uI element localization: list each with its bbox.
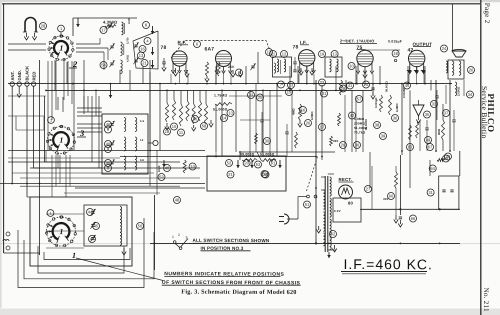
svg-text:47: 47 xyxy=(90,236,95,241)
svg-text:23: 23 xyxy=(249,92,254,97)
svg-text:75: 75 xyxy=(356,45,362,51)
svg-text:R.F.: R.F. xyxy=(177,40,186,45)
svg-text:0.015µF: 0.015µF xyxy=(374,97,378,108)
svg-text:30: 30 xyxy=(355,142,360,147)
svg-text:12: 12 xyxy=(282,51,287,56)
svg-text:1: 1 xyxy=(59,44,63,53)
svg-text:OUTPUT: OUTPUT xyxy=(412,42,432,47)
svg-text:26: 26 xyxy=(306,120,311,125)
svg-text:Fig. 3. Schematic Diagram of: Fig. 3. Schematic Diagram of Model 620 xyxy=(181,289,296,297)
svg-text:57: 57 xyxy=(357,96,362,101)
svg-text:80: 80 xyxy=(348,201,354,206)
svg-text:1: 1 xyxy=(72,251,76,260)
svg-text:4,50Ω: 4,50Ω xyxy=(127,55,130,62)
svg-text:62: 62 xyxy=(331,231,336,236)
svg-text:20: 20 xyxy=(364,82,369,87)
svg-text:51,000Ω: 51,000Ω xyxy=(213,108,228,112)
svg-text:I.F.=460 KC.: I.F.=460 KC. xyxy=(343,256,432,272)
svg-text:BLACK: BLACK xyxy=(25,66,30,81)
svg-text:RECT.: RECT. xyxy=(338,177,352,182)
svg-text:59: 59 xyxy=(262,171,267,176)
svg-text:56: 56 xyxy=(193,116,198,121)
svg-text:21: 21 xyxy=(142,60,147,65)
svg-text:38: 38 xyxy=(375,122,380,127)
svg-text:1: 1 xyxy=(49,211,51,215)
svg-text:ANT.: ANT. xyxy=(10,71,15,80)
svg-text:64: 64 xyxy=(430,166,435,171)
svg-text:300: 300 xyxy=(383,197,389,201)
svg-text:78: 78 xyxy=(160,45,166,51)
svg-text:36: 36 xyxy=(393,115,398,120)
svg-text:1: 1 xyxy=(60,27,62,31)
svg-text:250: 250 xyxy=(228,65,234,69)
svg-text:25: 25 xyxy=(258,95,263,100)
svg-text:30: 30 xyxy=(265,138,270,143)
svg-text:I.F.: I.F. xyxy=(300,40,307,45)
svg-text:13: 13 xyxy=(289,82,294,87)
svg-text:6A7: 6A7 xyxy=(204,47,214,53)
svg-text:24: 24 xyxy=(442,46,447,51)
svg-text:53: 53 xyxy=(159,174,164,179)
svg-text:13: 13 xyxy=(228,110,233,115)
svg-text:66: 66 xyxy=(411,216,416,221)
svg-text:46: 46 xyxy=(106,141,111,146)
svg-text:2MΩ: 2MΩ xyxy=(437,128,441,135)
svg-text:1/4MΩ: 1/4MΩ xyxy=(395,103,399,112)
svg-text:4,300Ω: 4,300Ω xyxy=(103,20,118,25)
svg-text:58: 58 xyxy=(202,123,207,128)
svg-text:49: 49 xyxy=(426,137,431,142)
svg-text:45: 45 xyxy=(94,223,99,228)
svg-text:26: 26 xyxy=(469,67,474,72)
svg-text:31: 31 xyxy=(322,91,327,96)
svg-text:6.5: 6.5 xyxy=(140,120,145,123)
svg-text:34: 34 xyxy=(468,92,473,97)
svg-text:78: 78 xyxy=(292,45,298,51)
svg-text:1: 1 xyxy=(172,235,174,239)
svg-text:No. 211: No. 211 xyxy=(482,288,490,312)
svg-text:63: 63 xyxy=(408,144,413,149)
svg-text:IN POSITION NO.3: IN POSITION NO.3 xyxy=(200,246,243,251)
svg-text:46: 46 xyxy=(106,122,111,127)
svg-text:41: 41 xyxy=(348,83,353,88)
svg-text:52: 52 xyxy=(227,160,232,165)
svg-text:10: 10 xyxy=(172,124,177,129)
svg-text:2: 2 xyxy=(72,59,78,69)
svg-text:44: 44 xyxy=(88,209,93,214)
svg-text:35: 35 xyxy=(425,112,430,117)
svg-text:10µF: 10µF xyxy=(157,165,161,172)
svg-text:16: 16 xyxy=(140,46,145,51)
svg-text:28: 28 xyxy=(341,86,346,91)
svg-text:18: 18 xyxy=(165,129,170,134)
svg-text:RED: RED xyxy=(31,72,36,81)
svg-text:2,000Ω: 2,000Ω xyxy=(457,86,461,96)
svg-text:10: 10 xyxy=(349,63,354,68)
svg-text:50: 50 xyxy=(138,223,143,228)
svg-text:65: 65 xyxy=(444,156,449,161)
svg-text:2: 2 xyxy=(178,233,180,237)
svg-text:Page 2: Page 2 xyxy=(483,3,491,24)
svg-text:16: 16 xyxy=(140,139,144,142)
svg-text:46: 46 xyxy=(106,160,111,165)
svg-text:14: 14 xyxy=(222,115,227,120)
svg-text:Service Bulletin: Service Bulletin xyxy=(480,86,489,138)
svg-text:22: 22 xyxy=(320,80,325,85)
svg-text:28: 28 xyxy=(41,23,46,28)
svg-text:19: 19 xyxy=(320,51,325,56)
svg-text:17: 17 xyxy=(101,27,106,32)
svg-text:39: 39 xyxy=(381,133,386,138)
svg-text:3: 3 xyxy=(79,128,85,138)
svg-text:16: 16 xyxy=(301,107,306,112)
svg-text:0.015μF: 0.015μF xyxy=(388,40,402,44)
svg-text:990: 990 xyxy=(333,139,339,143)
svg-text:1: 1 xyxy=(59,136,63,145)
svg-text:1: 1 xyxy=(59,227,63,236)
svg-text:GND.: GND. xyxy=(17,70,22,80)
svg-text:49: 49 xyxy=(165,165,170,170)
svg-text:ALL SWITCH SECTIONS SHOWN: ALL SWITCH SECTIONS SHOWN xyxy=(192,238,269,243)
svg-text:67: 67 xyxy=(428,144,433,149)
svg-text:1/2MΩ: 1/2MΩ xyxy=(310,111,314,120)
svg-text:48: 48 xyxy=(175,197,180,202)
svg-text:17: 17 xyxy=(320,124,325,129)
svg-text:61: 61 xyxy=(271,160,276,165)
svg-text:51: 51 xyxy=(305,202,310,207)
svg-text:1.75MΩ: 1.75MΩ xyxy=(214,94,227,98)
svg-text:6.3V: 6.3V xyxy=(334,209,341,213)
svg-text:0.015MF: 0.015MF xyxy=(402,87,406,98)
svg-text:5,750: 5,750 xyxy=(127,37,130,44)
svg-text:33: 33 xyxy=(432,101,437,106)
svg-text:99,000Ω: 99,000Ω xyxy=(385,80,389,92)
svg-text:37: 37 xyxy=(444,110,449,115)
svg-text:60: 60 xyxy=(389,193,394,198)
svg-text:2ⁿᵈDET. 1⁽ᵗAUDIO: 2ⁿᵈDET. 1⁽ᵗAUDIO xyxy=(340,38,374,43)
svg-text:53: 53 xyxy=(256,162,261,167)
svg-text:21: 21 xyxy=(228,172,233,177)
svg-text:99,000Ω: 99,000Ω xyxy=(364,118,368,130)
svg-text:13: 13 xyxy=(139,53,144,58)
svg-text:6Ω: 6Ω xyxy=(140,159,145,162)
